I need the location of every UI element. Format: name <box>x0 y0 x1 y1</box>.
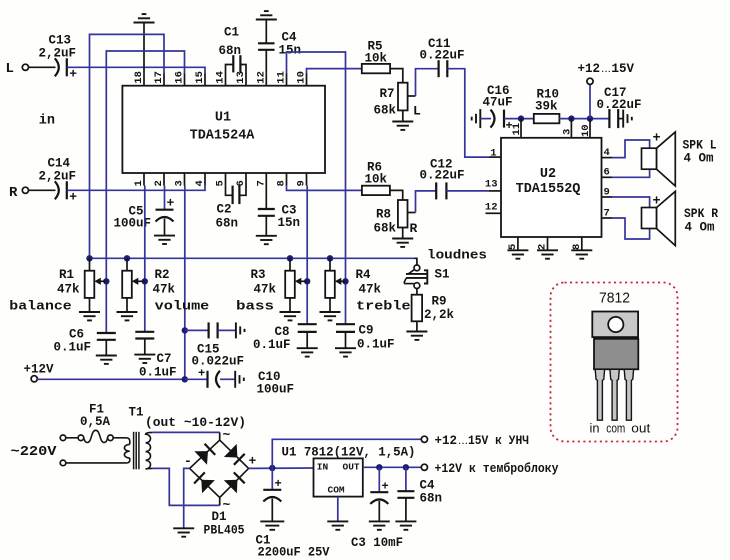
potentiometer R4 47k (treble) <box>327 255 333 261</box>
ground (C7) <box>134 355 155 363</box>
wire L input to C13 <box>29 66 56 68</box>
svg-text:balance: balance <box>9 299 72 314</box>
svg-text:0.1uF: 0.1uF <box>357 338 395 352</box>
svg-text:R2: R2 <box>155 268 170 282</box>
svg-text:C1: C1 <box>224 26 239 40</box>
svg-text:R4: R4 <box>356 268 372 282</box>
svg-text:2200uF 25V: 2200uF 25V <box>258 546 330 560</box>
ground (R7) <box>392 122 413 130</box>
svg-text:D1: D1 <box>212 510 227 524</box>
U1 pin 10 stub <box>306 73 308 86</box>
wire C9 to ground <box>345 332 347 348</box>
svg-text:+12V: +12V <box>24 363 55 377</box>
svg-text:10: 10 <box>580 124 592 137</box>
svg-text:12: 12 <box>485 202 498 214</box>
svg-text:OUT: OUT <box>343 461 360 472</box>
svg-text:0,5A: 0,5A <box>80 415 111 429</box>
svg-text:(out ~10-12V): (out ~10-12V) <box>145 416 246 430</box>
wire R6/R8 node tap <box>408 212 416 214</box>
U2 pin 8 <box>581 237 583 250</box>
7812 package info box (red dotted) <box>551 283 678 442</box>
wire pin5 to C2 <box>226 186 233 196</box>
U1 pin 15 stub <box>204 73 206 86</box>
svg-text:6: 6 <box>604 167 610 179</box>
U1 pin 4 stub <box>204 173 206 186</box>
wire C16 to R10 <box>504 118 534 120</box>
svg-text:2,2uF: 2,2uF <box>39 47 77 61</box>
U1 pin 3 stub <box>184 173 186 186</box>
U2 pin 13 <box>489 190 501 192</box>
wire U1 pin3 down to +12V rail <box>184 186 186 380</box>
wire bridge + to regulator <box>249 467 314 469</box>
terminal +12...15V <box>589 84 591 118</box>
wire pin6 to SPK L - <box>612 169 650 177</box>
wire C4 to top ground <box>265 20 267 44</box>
svg-text:~220V: ~220V <box>11 444 58 460</box>
U2 pin 5 <box>517 237 519 250</box>
diode D1c (bottom-left) <box>194 472 215 493</box>
svg-text:39k: 39k <box>535 100 558 114</box>
wire ground to C16 <box>480 118 491 120</box>
svg-text:treble: treble <box>356 299 411 314</box>
wire pin9 to SPK R + <box>612 197 650 208</box>
wire C14 to U1 pin 4 <box>67 185 205 191</box>
svg-text:9: 9 <box>296 180 308 186</box>
svg-text:SPK L: SPK L <box>683 139 717 153</box>
capacitor C7 0.1uF <box>135 332 154 339</box>
node bridge + junction <box>269 465 275 471</box>
node + wire C13 to U1 pin 15 <box>67 67 205 73</box>
amplifier IC U2 TDA1552Q body <box>501 138 602 237</box>
wire S1 to R9 <box>416 289 418 295</box>
svg-text:4 Om: 4 Om <box>685 221 716 235</box>
svg-text:2: 2 <box>153 180 165 186</box>
ground (U2 pin 2) <box>537 250 558 258</box>
wire C8 to ground <box>306 332 308 348</box>
wire U1 pin8 to R6 <box>287 186 362 191</box>
svg-text:C4: C4 <box>420 479 436 493</box>
svg-text:U2: U2 <box>540 167 556 182</box>
U2 pin 11 <box>520 119 522 138</box>
wire C7 to ground <box>144 339 146 355</box>
ground (U2 pin 8) <box>571 250 592 258</box>
wire R7 to ground <box>402 110 404 121</box>
svg-text:R3: R3 <box>251 268 266 282</box>
svg-text:-: - <box>184 454 192 469</box>
svg-text:out: out <box>631 422 651 436</box>
svg-text:0.1uF: 0.1uF <box>54 341 92 355</box>
speaker SPK L <box>642 148 657 169</box>
svg-text:C3 10mF: C3 10mF <box>351 536 403 550</box>
svg-text:C9: C9 <box>359 324 374 338</box>
transformer T1 secondary <box>146 432 153 469</box>
svg-text:5: 5 <box>507 244 519 250</box>
svg-text:+: + <box>69 67 77 82</box>
svg-text:R7: R7 <box>380 87 395 101</box>
wire R8 to ground <box>402 228 404 239</box>
svg-text:~: ~ <box>223 428 231 443</box>
svg-text:47k: 47k <box>254 283 277 297</box>
svg-text:47uF: 47uF <box>483 96 513 110</box>
wire tap up to C11 <box>416 69 439 96</box>
svg-text:C7: C7 <box>157 352 172 366</box>
resistor R6 10k <box>362 186 390 195</box>
svg-text:+: + <box>275 477 282 491</box>
svg-text:4: 4 <box>604 147 610 159</box>
svg-text:loudnes: loudnes <box>427 247 487 262</box>
svg-text:+: + <box>382 480 389 494</box>
svg-text:11: 11 <box>511 123 523 136</box>
wire C5 to ground <box>164 219 166 236</box>
speaker SPK R <box>642 208 657 229</box>
svg-text:S1: S1 <box>435 268 450 282</box>
svg-text:1: 1 <box>490 148 496 160</box>
svg-text:U1: U1 <box>215 111 231 126</box>
capacitor C8 0.1uF <box>298 324 317 332</box>
potentiometer R1 47k (balance) <box>86 255 92 261</box>
svg-text:3: 3 <box>174 180 186 186</box>
ground (C5) <box>154 236 175 244</box>
svg-text:10k: 10k <box>365 173 388 187</box>
capacitor C15 0.022uF <box>209 322 218 338</box>
resistor R7 68k <box>398 83 408 111</box>
wire pin18 to top ground <box>143 23 145 74</box>
svg-text:R: R <box>9 185 18 201</box>
svg-text:68n: 68n <box>219 44 242 58</box>
potentiometer R2 47k (volume) <box>124 255 130 261</box>
svg-text:0.1uF: 0.1uF <box>253 338 291 352</box>
ground (COM) <box>327 521 348 529</box>
U2 pin 10 <box>589 119 591 138</box>
input terminal R <box>22 187 28 193</box>
svg-text:C8: C8 <box>275 325 290 339</box>
svg-text:C13: C13 <box>49 34 72 48</box>
capacitor C4 68n (power supply) <box>403 464 409 470</box>
wire to C10 <box>185 378 208 380</box>
terminal ~220V line 1 <box>60 435 66 441</box>
fuse F1 0,5A <box>66 437 78 439</box>
ground (U2 pin 5) <box>507 250 528 258</box>
U1 pin 9 stub <box>306 173 308 186</box>
svg-text:SPK R: SPK R <box>684 207 718 221</box>
U2 pin 9 <box>602 196 613 198</box>
resistor R9 2,2k <box>412 295 423 322</box>
capacitor C2 68n <box>232 186 234 205</box>
wire pot supply bus <box>90 257 415 259</box>
svg-text:13: 13 <box>485 179 498 191</box>
voltage regulator U1 7812 <box>314 458 363 496</box>
svg-text:T1: T1 <box>129 406 144 420</box>
wire U1 pin11 to treble R4 wiper and C9 <box>287 52 346 324</box>
wire bridge minus to ground <box>184 468 190 528</box>
capacitor C3 15n <box>258 209 275 216</box>
svg-text:2: 2 <box>537 244 549 250</box>
U1 pin 16 stub <box>184 73 186 86</box>
node +12V junction <box>182 376 188 382</box>
svg-text:1: 1 <box>133 180 145 186</box>
diode D1a (top-left) <box>194 444 215 465</box>
switch S1 (loudness) <box>414 265 420 271</box>
node +12V supply junction <box>587 115 593 121</box>
wire ~220V bottom to primary <box>66 462 127 464</box>
svg-text:C4: C4 <box>282 31 298 45</box>
wire pin14 to C1 <box>226 65 234 74</box>
ground (R4) <box>320 312 341 320</box>
U1 pin 2 stub <box>163 173 165 186</box>
node U2 pin3 top <box>568 115 574 121</box>
wire C12 to U2 pin 13 <box>446 190 489 192</box>
svg-text:TDA1524A: TDA1524A <box>190 129 256 144</box>
svg-text:15n: 15n <box>279 44 302 58</box>
potentiometer R3 47k (bass) <box>287 255 293 261</box>
svg-text:in: in <box>39 114 55 129</box>
U2 pin 1 <box>489 156 501 158</box>
capacitor C9 0.1uF <box>336 324 355 332</box>
svg-text:C6: C6 <box>69 328 84 342</box>
capacitor C3 10mF <box>376 464 382 470</box>
svg-text:47k: 47k <box>57 283 80 297</box>
svg-text:68k: 68k <box>374 222 397 236</box>
wire R10 to C17 <box>559 118 609 120</box>
wire tap up to C12 <box>416 191 437 213</box>
svg-text:47k: 47k <box>153 283 176 297</box>
wire C6 to ground <box>105 340 107 356</box>
svg-text:68k: 68k <box>374 104 397 118</box>
capacitor C13 2,2uF <box>55 58 67 76</box>
wire U1 pin1 to R2 wiper and C7 <box>144 186 146 332</box>
capacitor C14 2,2uF <box>55 181 67 199</box>
svg-text:2,2k: 2,2k <box>424 308 455 322</box>
7812 leads <box>595 369 604 420</box>
bridge rectifier D1 PBL405 <box>190 440 249 497</box>
svg-text:47k: 47k <box>359 283 382 297</box>
ground (R2) <box>117 312 138 320</box>
svg-text:R9: R9 <box>432 295 447 309</box>
capacitor C17 0.22uF <box>609 109 618 128</box>
wire R5/R7 node tap <box>408 95 416 97</box>
svg-text:+: + <box>198 367 205 381</box>
svg-text:10k: 10k <box>365 52 388 66</box>
terminal ~220V line 2 <box>60 460 66 466</box>
svg-text:0.22uF: 0.22uF <box>420 49 465 63</box>
wire + up to output terminal <box>272 439 421 468</box>
U1 pin 12 stub <box>265 73 267 86</box>
diode D1b (top-right) <box>224 444 245 465</box>
wire C3 to ground <box>265 216 267 236</box>
wire R6 to R8 <box>390 190 403 200</box>
U2 pin 6 <box>602 176 613 178</box>
svg-text:4 Om: 4 Om <box>684 152 715 166</box>
wire R5 to R7 <box>390 69 403 83</box>
svg-text:C14: C14 <box>48 157 71 171</box>
ground (C10, sideways) <box>235 371 244 388</box>
wire C17 to side ground <box>618 118 623 120</box>
svg-text:com: com <box>606 422 625 436</box>
capacitor C16 47uF <box>491 110 505 128</box>
svg-text:8: 8 <box>571 244 583 250</box>
ground (C3) <box>256 236 277 244</box>
wire pin7 to C3 <box>265 186 267 210</box>
svg-text:+: + <box>653 195 661 210</box>
capacitor C12 0.22uF <box>436 182 446 199</box>
terminal +12V к темброблоку <box>421 464 427 470</box>
ground (R1) <box>79 312 100 320</box>
U2 pin 12 stub <box>486 212 502 214</box>
U2 pin 4 <box>602 157 613 159</box>
wire pin12 to C4 <box>265 50 267 73</box>
wire U1 pin10 to R5 <box>307 69 362 74</box>
wire pin2 down to C5 <box>164 186 166 210</box>
wire U1 pin16 to R1 wiper and C6 <box>106 51 184 333</box>
svg-text:0.1uF: 0.1uF <box>139 366 177 380</box>
wire pin4 to SPK L + <box>612 140 650 158</box>
terminal +12V <box>31 376 37 382</box>
ground (top, C4) <box>256 11 277 19</box>
U1 pin 11 stub <box>286 73 288 86</box>
ground (C17, sideways) <box>623 110 632 128</box>
capacitor C5 100uF <box>156 210 174 222</box>
U1 pin 6 stub <box>245 173 247 186</box>
U1 pin 8 stub <box>286 173 288 186</box>
wire secondary top to bridge <box>153 431 220 433</box>
wire U1 pin17 to balance pot R1 top <box>90 34 165 258</box>
svg-text:100uF: 100uF <box>257 383 295 397</box>
ground (C9) <box>335 348 356 356</box>
ground (C3) <box>369 521 390 529</box>
svg-text:IN: IN <box>317 461 329 472</box>
wire OUT to +12V terminal <box>363 466 422 468</box>
resistor R5 10k <box>362 64 390 73</box>
svg-text:15V: 15V <box>612 62 635 76</box>
wire R input to C14 <box>29 189 56 191</box>
svg-text:+12: +12 <box>435 434 458 448</box>
U1 pin 1 stub <box>143 173 145 186</box>
capacitor C6 0.1uF <box>97 333 116 340</box>
wire pin13 to C1 <box>240 65 246 74</box>
U2 pin 3 <box>570 119 572 138</box>
svg-text:R8: R8 <box>376 208 391 222</box>
U1 pin 13 stub <box>245 73 247 86</box>
transformer T1 primary <box>113 437 126 439</box>
U2 pin 7 <box>602 217 613 219</box>
svg-text:7812: 7812 <box>599 291 630 307</box>
7812 package tab <box>592 312 638 338</box>
wire to C15 <box>185 329 209 331</box>
capacitor C1 68n <box>232 55 234 72</box>
svg-text:C2: C2 <box>217 203 232 217</box>
svg-text:68n: 68n <box>420 492 443 506</box>
svg-text:R1: R1 <box>59 268 74 282</box>
svg-text:2,2uF: 2,2uF <box>39 170 77 184</box>
svg-text:+: + <box>653 132 661 147</box>
U1 pin 5 stub <box>225 173 227 186</box>
resistor R10 39k <box>534 114 560 123</box>
wire +12V rail <box>37 378 185 380</box>
ground (C15, sideways) <box>236 322 245 338</box>
wire U1 pin9 to R3 wiper and C8 <box>306 186 308 325</box>
svg-text:0.22uF: 0.22uF <box>597 98 642 112</box>
op-amp/IC U1 TDA1524A body <box>122 86 325 173</box>
svg-text:+: + <box>167 196 175 211</box>
7812 package hole <box>608 317 623 332</box>
ground (C6) <box>96 356 117 364</box>
svg-text:3: 3 <box>561 129 573 135</box>
svg-text:7: 7 <box>604 208 610 220</box>
U1 pin 7 stub <box>265 173 267 186</box>
wire COM to ground <box>337 497 339 522</box>
node C15 junction <box>182 327 188 333</box>
capacitor C1 2200uF 25V <box>271 468 273 490</box>
svg-text:TDA1552Q: TDA1552Q <box>516 182 581 197</box>
svg-text:L: L <box>6 61 14 77</box>
svg-text:15V к УНЧ: 15V к УНЧ <box>468 434 529 448</box>
svg-text:+: + <box>69 190 77 205</box>
svg-text:9: 9 <box>604 187 610 199</box>
diode D1d (bottom-right) <box>224 472 245 493</box>
7812 package body <box>594 339 638 370</box>
capacitor C11 0.22uF <box>439 60 448 77</box>
ground (C1) <box>260 521 284 529</box>
svg-text:R: R <box>410 221 418 236</box>
ground (top, U1 pin 18) <box>134 14 155 22</box>
wire pin6 to C2 <box>239 186 246 196</box>
resistor R8 68k <box>398 200 408 228</box>
node U2 pin11 top <box>518 115 524 121</box>
terminal +12...15V к УНЧ <box>421 436 427 442</box>
input terminal L <box>22 64 28 70</box>
ground (C16, sideways) <box>472 109 481 128</box>
capacitor C4 15n <box>258 43 275 50</box>
ground (bridge -) <box>173 528 194 536</box>
U1 pin 14 stub <box>225 73 227 86</box>
svg-text:0.22uF: 0.22uF <box>420 169 465 183</box>
wire R9 to ground <box>416 321 418 331</box>
ground (C8) <box>297 348 318 356</box>
U1 pin 17 stub <box>163 73 165 86</box>
svg-text:COM: COM <box>328 485 345 496</box>
wire secondary bottom to bridge bottom <box>153 468 220 505</box>
svg-text:+12: +12 <box>578 62 601 76</box>
svg-text:+: + <box>249 454 257 469</box>
svg-text:in: in <box>590 422 600 436</box>
ground (R3) <box>280 312 301 320</box>
U2 pin 2 <box>547 237 549 250</box>
ground (R9) <box>406 332 427 340</box>
svg-text:68n: 68n <box>216 217 239 231</box>
wire C15 to side ground <box>218 329 236 331</box>
svg-text:U1 7812(12V, 1,5A): U1 7812(12V, 1,5A) <box>282 446 416 460</box>
transformer T1 core <box>133 432 135 470</box>
ground (C4 psu) <box>395 521 416 529</box>
wire C10 to side ground <box>220 378 235 380</box>
wire bus to S1 <box>415 258 417 265</box>
wire C11 to U2 pin 1 <box>447 69 489 157</box>
capacitor C10 100uF <box>208 371 221 388</box>
svg-text:15n: 15n <box>278 216 301 230</box>
svg-text:+12V к темброблоку: +12V к темброблоку <box>435 461 559 476</box>
U1 pin 18 stub <box>143 73 145 86</box>
wire pin7 to SPK R - <box>612 218 650 239</box>
svg-text:bass: bass <box>236 299 274 314</box>
svg-text:volume: volume <box>155 299 210 314</box>
svg-text:PBL405: PBL405 <box>204 524 245 538</box>
ground (R8) <box>392 239 413 247</box>
svg-text:L: L <box>413 104 421 119</box>
